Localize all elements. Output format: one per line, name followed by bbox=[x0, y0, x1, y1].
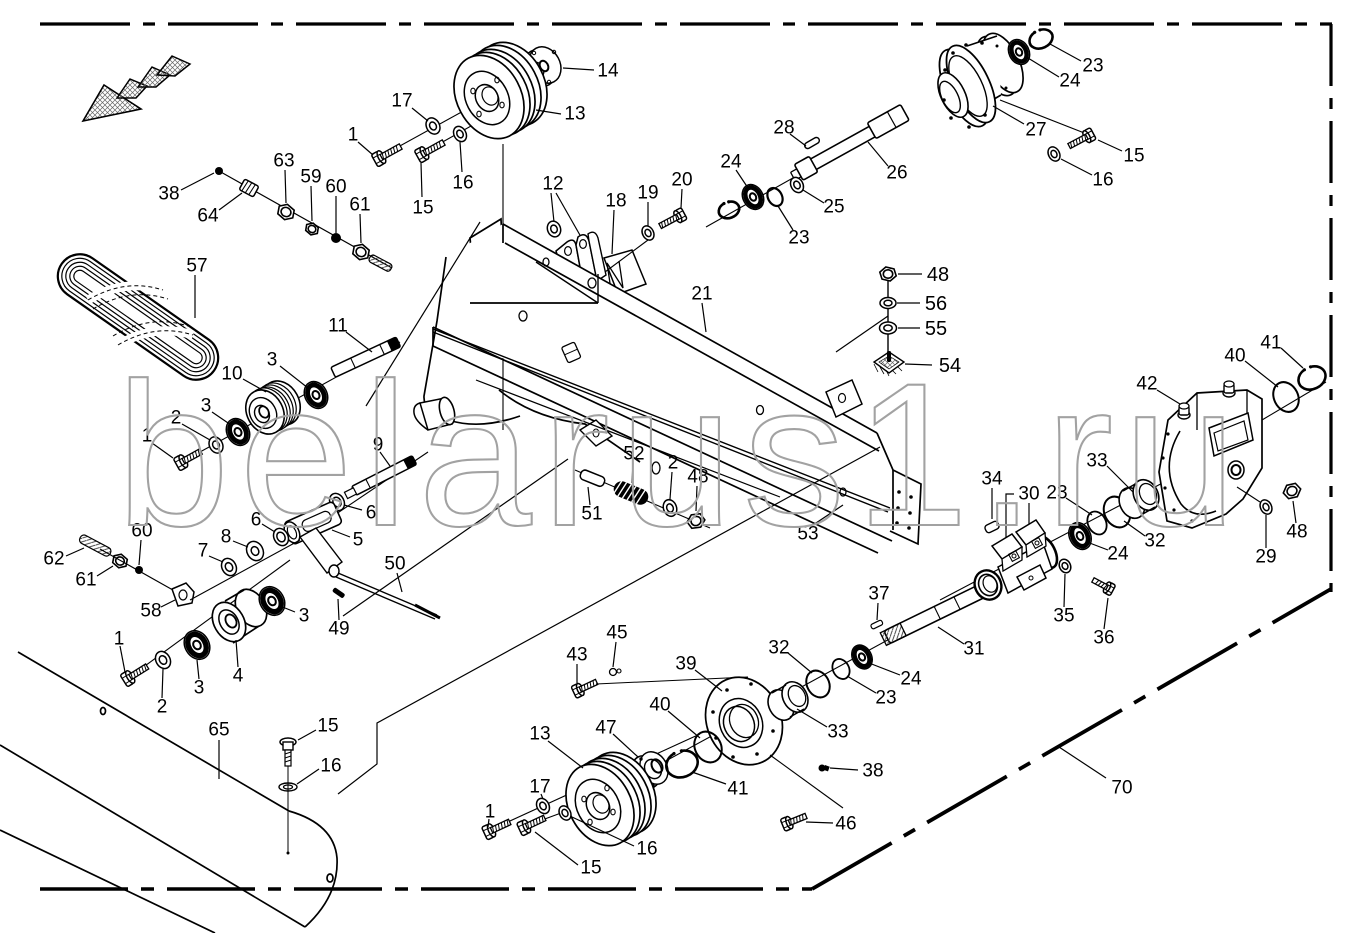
svg-text:46: 46 bbox=[835, 814, 856, 835]
svg-text:23: 23 bbox=[1082, 56, 1103, 77]
washer 25 bbox=[788, 175, 806, 195]
svg-text:18: 18 bbox=[605, 191, 626, 212]
leader 19 bbox=[647, 202, 649, 226]
leader 63 bbox=[285, 170, 286, 203]
leader 1 c bbox=[120, 646, 125, 672]
bearing 3 b2 bbox=[300, 377, 333, 412]
bolt 1 d bbox=[482, 816, 513, 840]
washer 2 c bbox=[152, 649, 173, 672]
washer 6 d bbox=[271, 526, 292, 548]
leader 64 bbox=[219, 193, 242, 210]
leader 24 a bbox=[736, 170, 748, 188]
leader 40 d bbox=[668, 711, 700, 738]
panel bolt centerline bbox=[287, 766, 289, 852]
leader 57 bbox=[194, 275, 196, 318]
leader 1 d bbox=[488, 819, 489, 827]
key 28 bbox=[804, 136, 821, 149]
leader 3 c2 bbox=[280, 606, 295, 612]
leader 31 bbox=[938, 627, 964, 644]
ring 40 b bbox=[1268, 378, 1303, 416]
leader 2 spring bbox=[670, 472, 672, 499]
border bottom bbox=[40, 887, 812, 891]
leader 12b bbox=[556, 193, 589, 251]
svg-text:36: 36 bbox=[1093, 628, 1114, 649]
leader 48 spring bbox=[696, 486, 697, 511]
washer 17 top bbox=[423, 115, 442, 136]
leader 16 d bbox=[572, 817, 634, 846]
svg-text:23: 23 bbox=[875, 688, 896, 709]
pad 54 bbox=[874, 351, 904, 376]
washer 19 bbox=[640, 224, 657, 242]
leader 49 bbox=[338, 599, 339, 620]
leader 21 bbox=[702, 303, 706, 332]
svg-text:43: 43 bbox=[566, 645, 587, 666]
key 62 bbox=[78, 534, 112, 558]
leader 24 b bbox=[1028, 58, 1059, 77]
leader 39-46 bbox=[770, 755, 843, 808]
leader 16 tr bbox=[1061, 159, 1092, 175]
svg-text:26: 26 bbox=[886, 163, 907, 184]
shaft 9 bbox=[344, 456, 417, 500]
leader 65 bbox=[218, 740, 220, 779]
plug 64 bbox=[239, 179, 259, 197]
leader 13 bottom bbox=[548, 741, 583, 768]
leader 51 bbox=[588, 487, 590, 505]
leader 42-29 bbox=[1237, 487, 1260, 502]
bearing 24 a bbox=[738, 181, 768, 213]
torn boundary long bbox=[338, 447, 880, 794]
leader 48 b bbox=[1293, 501, 1296, 523]
svg-text:17: 17 bbox=[529, 777, 550, 798]
leader 16 panel bbox=[297, 769, 319, 784]
leader 27 bbox=[993, 106, 1024, 124]
bracket 12 clevis bbox=[556, 232, 606, 298]
rod 50 bbox=[329, 565, 440, 619]
leader 61 bbox=[360, 214, 361, 243]
washer 16 panel bbox=[279, 783, 297, 791]
svg-text:15: 15 bbox=[1123, 146, 1144, 167]
bolt 1 top bbox=[371, 140, 404, 167]
leader 26 bbox=[868, 142, 888, 166]
beam end plate holes bbox=[895, 490, 913, 530]
leader 28 bbox=[790, 134, 806, 146]
svg-text:1: 1 bbox=[114, 629, 125, 650]
svg-text:12: 12 bbox=[542, 174, 563, 195]
ball 38 bbox=[215, 167, 223, 175]
washer 45 bbox=[610, 669, 617, 676]
svg-text:14: 14 bbox=[597, 61, 619, 82]
axis 42 rings bbox=[1262, 382, 1326, 420]
bolt 36 bbox=[1090, 575, 1116, 596]
leader 32 c bbox=[1124, 521, 1145, 536]
bearing 3 c2 bbox=[254, 582, 290, 620]
elbow 58 bbox=[172, 583, 194, 606]
leader 15 d bbox=[535, 832, 578, 865]
leader 9 bbox=[380, 452, 390, 466]
svg-text:15: 15 bbox=[580, 858, 601, 879]
leader 16 top bbox=[460, 142, 462, 172]
belt break mark bbox=[88, 286, 193, 345]
shaft 31 bbox=[880, 581, 993, 646]
leader 43 bbox=[576, 664, 578, 684]
spring anchor clevis bbox=[580, 420, 612, 446]
svg-text:39: 39 bbox=[675, 654, 696, 675]
direction arrow seg2 bbox=[138, 67, 170, 87]
cylinder 5 bbox=[281, 501, 343, 546]
svg-text:19: 19 bbox=[637, 183, 658, 204]
panel bolt hole bbox=[287, 852, 290, 855]
border right bbox=[1329, 24, 1332, 592]
leader 17 d bbox=[541, 794, 543, 799]
washer 16 top bbox=[451, 124, 469, 144]
washer 7 bbox=[219, 556, 240, 578]
svg-text:16: 16 bbox=[636, 839, 657, 860]
axis 1-11 bbox=[180, 342, 400, 463]
leader 24 d bbox=[869, 663, 900, 675]
axis bottom 1 bbox=[488, 734, 700, 831]
housing 42 bbox=[1159, 381, 1262, 528]
leader 3 b2 bbox=[280, 366, 308, 388]
beam mid tab bbox=[826, 380, 862, 417]
ring 23 d bbox=[829, 656, 853, 682]
svg-text:25: 25 bbox=[823, 197, 844, 218]
leader 1 top bbox=[358, 142, 373, 155]
flange 39 bbox=[692, 665, 796, 777]
svg-text:31: 31 bbox=[963, 639, 984, 660]
pin 49 bbox=[332, 587, 346, 599]
leader 23 b bbox=[1050, 44, 1081, 61]
washer 16 tr bbox=[1046, 145, 1063, 163]
washer 55 bbox=[880, 322, 897, 334]
pin 34 bbox=[984, 520, 1000, 533]
leader 32 d bbox=[788, 653, 812, 673]
rod fitting bbox=[561, 342, 581, 363]
axis 5-9 bbox=[305, 452, 428, 535]
beam lower inner edge bbox=[476, 380, 780, 497]
leader 41 b bbox=[1281, 348, 1303, 368]
ring 40 d bbox=[689, 727, 727, 767]
axis bottom flange bbox=[640, 606, 950, 775]
leader 60 b bbox=[139, 540, 141, 565]
border top bbox=[40, 22, 1332, 25]
seal 24 b bbox=[1004, 36, 1033, 68]
leader 59 bbox=[311, 186, 312, 221]
svg-text:61: 61 bbox=[349, 195, 370, 216]
svg-text:16: 16 bbox=[320, 756, 341, 777]
bolt 46 bbox=[780, 810, 808, 831]
svg-text:58: 58 bbox=[140, 601, 161, 622]
svg-text:59: 59 bbox=[300, 167, 321, 188]
snap 23 b bbox=[1026, 25, 1056, 53]
pulley 10 bbox=[238, 374, 307, 441]
leader 7 bbox=[209, 556, 223, 562]
svg-text:27: 27 bbox=[1025, 120, 1046, 141]
coupler 30 bbox=[970, 520, 1062, 604]
leader 2 b bbox=[182, 424, 210, 440]
spring 52 bbox=[611, 479, 650, 507]
svg-text:3: 3 bbox=[194, 678, 205, 699]
axis bolt1-hub14 bbox=[378, 60, 556, 158]
washer 2 spring bbox=[661, 498, 679, 518]
svg-text:48: 48 bbox=[927, 264, 949, 286]
sleeve 33 c bbox=[1114, 475, 1164, 522]
axis 43-39 bbox=[596, 677, 748, 684]
svg-text:17: 17 bbox=[391, 91, 412, 112]
leader 34-30 bbox=[992, 488, 1029, 545]
key 62 top bbox=[368, 254, 393, 272]
leader 50 bbox=[397, 573, 402, 592]
washer 6 c bbox=[327, 491, 348, 513]
leader 55 bbox=[898, 327, 920, 329]
washer 29 bbox=[1258, 498, 1274, 516]
grease fitting 38 b bbox=[819, 765, 826, 772]
svg-text:3: 3 bbox=[299, 606, 310, 627]
washer 35 bbox=[1057, 557, 1073, 574]
leader 29 bbox=[1265, 515, 1267, 548]
shaft 11 bbox=[331, 337, 401, 377]
leader 15 top bbox=[421, 163, 422, 197]
svg-text:13: 13 bbox=[529, 724, 550, 745]
direction arrow head bbox=[83, 85, 141, 121]
svg-text:70: 70 bbox=[1111, 778, 1132, 799]
svg-text:40: 40 bbox=[649, 695, 670, 716]
leader 6 c bbox=[344, 505, 362, 510]
leader 53 bbox=[813, 505, 843, 525]
nut 12a bbox=[545, 219, 563, 238]
svg-text:35: 35 bbox=[1053, 606, 1074, 627]
leader 25 bbox=[803, 190, 824, 203]
bearing 24 d bbox=[848, 642, 877, 673]
leader 13 top bbox=[536, 110, 561, 114]
bolt 20 bbox=[657, 208, 687, 232]
hub 14 bbox=[518, 41, 567, 92]
nut 48 spring bbox=[685, 511, 706, 531]
svg-text:64: 64 bbox=[197, 206, 219, 227]
svg-text:49: 49 bbox=[328, 619, 349, 640]
belt 57 bbox=[49, 246, 227, 389]
bolt 15 tr bbox=[1066, 128, 1096, 152]
leader 42 bbox=[1157, 390, 1180, 404]
svg-text:15: 15 bbox=[317, 716, 338, 737]
ring 32 c bbox=[1099, 492, 1135, 532]
leader 70 bbox=[1059, 747, 1106, 778]
leader 62 bbox=[66, 548, 84, 556]
leader 35 bbox=[1064, 574, 1065, 607]
arm plate bbox=[300, 528, 342, 573]
washer 56 bbox=[880, 298, 896, 309]
leader 36 bbox=[1104, 598, 1108, 629]
leader 23 c bbox=[1066, 498, 1092, 515]
axis bottom 2 bbox=[523, 795, 610, 827]
ring 32 d bbox=[802, 666, 835, 701]
svg-text:41: 41 bbox=[1260, 333, 1281, 354]
leader 48 stack bbox=[898, 273, 922, 275]
washer 2 b bbox=[206, 434, 225, 455]
axis 1-5b bbox=[127, 560, 290, 679]
svg-text:47: 47 bbox=[595, 718, 616, 739]
leader 15 panel bbox=[298, 730, 316, 740]
bolt 1 b bbox=[173, 445, 204, 471]
ring 23 e bbox=[764, 185, 785, 208]
axis 62-58 bbox=[100, 549, 180, 594]
leader 6 d bbox=[262, 524, 275, 532]
bolt 15 top bbox=[414, 136, 447, 163]
svg-text:38: 38 bbox=[862, 761, 883, 782]
svg-text:55: 55 bbox=[925, 318, 947, 340]
leader 38 b bbox=[830, 768, 858, 770]
leader 52 bbox=[632, 463, 633, 483]
svg-text:62: 62 bbox=[43, 549, 64, 570]
leader 3 c1 bbox=[197, 660, 199, 679]
washer 17 d bbox=[534, 796, 552, 816]
leader 15 tr bbox=[1098, 140, 1122, 151]
svg-text:63: 63 bbox=[273, 151, 294, 172]
leader 38 bbox=[181, 173, 214, 190]
svg-text:16: 16 bbox=[1092, 170, 1113, 191]
sleeve 33 d bbox=[763, 677, 813, 725]
stub axle left end bbox=[414, 396, 458, 430]
key 37 bbox=[870, 620, 883, 630]
centerline pulley13 bbox=[502, 144, 504, 430]
nut 63 bbox=[275, 201, 297, 222]
leader 17 top bbox=[412, 108, 428, 121]
leader 1 b bbox=[152, 443, 173, 458]
axis 23-26 bbox=[706, 174, 800, 227]
svg-text:13: 13 bbox=[564, 104, 585, 125]
leader 3 b1 bbox=[212, 412, 231, 425]
leader 2 c bbox=[162, 669, 163, 698]
pulley 13 top bbox=[440, 30, 561, 151]
svg-text:60: 60 bbox=[325, 177, 346, 198]
axis 20-18 bbox=[605, 240, 648, 272]
frame beam 21 bbox=[424, 219, 921, 553]
bolt 15 panel bbox=[280, 738, 296, 766]
leader 4 bbox=[236, 640, 238, 667]
leader 10 bbox=[243, 379, 266, 392]
ball 60 bbox=[332, 234, 341, 243]
nut 61 b bbox=[110, 552, 130, 571]
direction arrow seg3 bbox=[157, 56, 190, 76]
direction arrow seg1 bbox=[117, 79, 147, 98]
washer 16 d bbox=[557, 804, 574, 822]
leader 39 bbox=[695, 670, 722, 691]
stack axis bbox=[887, 280, 889, 360]
svg-text:11: 11 bbox=[328, 316, 348, 337]
pin 51 bbox=[579, 469, 606, 488]
svg-text:1: 1 bbox=[348, 125, 359, 146]
tie rod 53 bbox=[433, 329, 890, 512]
leader 61 b bbox=[97, 566, 113, 576]
bearing 3 b1 bbox=[222, 414, 255, 449]
svg-text:24: 24 bbox=[900, 669, 922, 690]
axis 27-15 bbox=[1000, 100, 1092, 136]
svg-text:41: 41 bbox=[727, 779, 748, 800]
stack leader diag bbox=[836, 316, 888, 352]
svg-text:48: 48 bbox=[1286, 522, 1307, 543]
bolt 1 c bbox=[120, 660, 151, 686]
snap 41 d bbox=[662, 745, 701, 782]
leader 47 bbox=[613, 734, 638, 757]
beam face holes bbox=[519, 258, 846, 496]
leader 41 d bbox=[692, 772, 726, 784]
svg-text:29: 29 bbox=[1255, 547, 1276, 568]
nut 61 bbox=[350, 241, 372, 262]
leader 24 c bbox=[1087, 542, 1108, 550]
machine outline 70 diagonal bbox=[812, 589, 1331, 889]
hub 47 bbox=[627, 747, 674, 793]
ball 60 b bbox=[135, 566, 143, 574]
svg-text:56: 56 bbox=[925, 293, 947, 315]
ring 23 c bbox=[1084, 508, 1111, 537]
leader 8 bbox=[233, 541, 248, 547]
plate 18 bbox=[604, 250, 646, 294]
svg-text:33: 33 bbox=[827, 722, 848, 743]
leader 14 bbox=[563, 68, 594, 70]
svg-text:38: 38 bbox=[158, 184, 179, 205]
leader 40 b bbox=[1245, 361, 1278, 387]
svg-text:45: 45 bbox=[606, 623, 627, 644]
pulley 13 bottom bbox=[552, 740, 669, 857]
leader 37 bbox=[877, 603, 878, 620]
axis 51-48 bbox=[575, 470, 710, 528]
svg-text:57: 57 bbox=[186, 256, 207, 277]
svg-text:2: 2 bbox=[157, 697, 168, 718]
leader 18 bbox=[612, 210, 614, 254]
bolt 15 d bbox=[517, 812, 548, 836]
torn boundary upper bbox=[366, 222, 480, 406]
svg-text:16: 16 bbox=[452, 173, 473, 194]
leader 23 e bbox=[778, 206, 793, 230]
leader 11 bbox=[346, 332, 372, 352]
shaft 26 bbox=[788, 104, 910, 183]
svg-text:belarus1.ru: belarus1.ru bbox=[116, 341, 1247, 569]
nut 48 b bbox=[1281, 481, 1303, 502]
axis bolt15-pulley bbox=[423, 103, 512, 153]
leader 45 bbox=[613, 642, 616, 667]
nut 12b bbox=[582, 248, 600, 267]
bearing 3 c1 bbox=[179, 626, 215, 664]
snap 23 f bbox=[716, 198, 742, 222]
axis line 38-61 bbox=[219, 171, 392, 268]
leader 23 d bbox=[847, 676, 876, 693]
bearing 24 c bbox=[1064, 519, 1095, 553]
leader 60 bbox=[335, 196, 337, 233]
leader 12a bbox=[551, 193, 554, 222]
svg-text:61: 61 bbox=[75, 570, 96, 591]
washer 8 bbox=[243, 538, 267, 563]
axis 30 chain bbox=[940, 478, 1172, 600]
leader 33 d bbox=[797, 709, 827, 727]
roller 4 bbox=[206, 584, 274, 648]
hub 27 bbox=[929, 27, 1031, 133]
leader 33 c bbox=[1107, 466, 1133, 492]
link line arm-spring bbox=[343, 459, 568, 616]
svg-text:37: 37 bbox=[868, 584, 889, 605]
leader 46 bbox=[806, 822, 833, 823]
leader 58 bbox=[161, 600, 175, 607]
svg-text:4: 4 bbox=[233, 666, 244, 687]
svg-text:24: 24 bbox=[720, 152, 742, 173]
svg-text:32: 32 bbox=[768, 638, 789, 659]
bracket support bbox=[536, 262, 598, 303]
bolt 43 bbox=[571, 676, 599, 698]
leader 20 bbox=[681, 189, 682, 208]
nut 59 bbox=[303, 221, 320, 237]
svg-text:23: 23 bbox=[788, 228, 809, 249]
axis 58-5 bbox=[190, 540, 300, 600]
svg-text:21: 21 bbox=[691, 284, 712, 305]
svg-text:15: 15 bbox=[412, 198, 433, 219]
